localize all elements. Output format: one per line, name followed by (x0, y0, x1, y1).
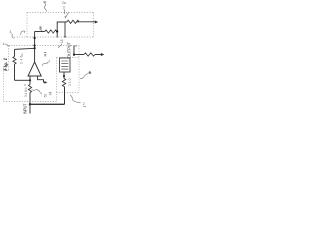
label 1 mark (43, 1, 46, 3)
svg-text:52: 52 (44, 94, 48, 98)
wire: feedback left vertical upper (14, 50, 16, 57)
wire: feedback bottom horizontal to inverting input (15, 79, 31, 81)
dashed boundary: top block right edge (93, 13, 95, 37)
dashed boundary: top block top edge (27, 12, 94, 14)
component X1 box (resonator) (60, 58, 71, 72)
wire: R5 up to component box (63, 72, 65, 79)
label 3 leader squiggle (11, 34, 14, 39)
junction node on bus at lower dashed crossing (34, 44, 36, 46)
wire: output horizontal to R6 (74, 54, 84, 56)
label 38 leader squiggle (top resistor) (40, 27, 42, 32)
label marks above op-amp (44, 53, 46, 56)
wire: node up and right to R2 (57, 22, 67, 32)
label 18 leader squiggle (59, 44, 62, 48)
wire: R1 to node at x57 (56, 31, 57, 33)
arrow: output right arrow (101, 53, 104, 56)
junction node: output tee (73, 53, 75, 55)
svg-text:2: 2 (83, 102, 85, 106)
svg-text:34: 34 (48, 92, 52, 96)
label 8 dot (89, 71, 92, 74)
dashed boundary: left edge jog (4, 70, 9, 72)
svg-text:INPUT: INPUT (23, 103, 28, 114)
dashed boundary: main block left edge upper (8, 46, 10, 71)
dashed boundary: main block top edge (9, 45, 80, 47)
junction node: inverting input (29, 79, 31, 81)
label 2 leader squiggle (bottom right) (70, 95, 81, 103)
label 4 leader squiggle (5, 44, 10, 46)
svg-text:3.: 3. (9, 30, 12, 34)
resistor R5 (mid-right vertical) (62, 79, 65, 87)
wire: bottom horizontal bus (30, 103, 65, 105)
wire: R6 to output arrow (95, 54, 102, 56)
dashed boundary: main block bottom edge (4, 101, 57, 103)
junction node on bus at upper dashed crossing (34, 37, 36, 39)
resistor R6 (output horizontal) (84, 53, 95, 56)
dashed boundary: top block left edge (26, 13, 28, 38)
arrow: reference lead small right arrow (44, 81, 45, 83)
label 2 underline mark (83, 106, 86, 108)
wire: feedback left vertical lower (14, 64, 16, 80)
wire: input vertical lower (29, 93, 31, 114)
wire: output vertical from dashed top edge (73, 46, 75, 57)
svg-text:346: 346 (20, 55, 24, 64)
wire: right vertical from bottom bus up to R5 (64, 87, 66, 105)
label 9 leader squiggle (bottom left) (32, 89, 42, 94)
dashed boundary: top block bottom edge (14, 36, 94, 38)
label 1 leader squiggle (top) (44, 3, 46, 12)
svg-text:38: 38 (38, 26, 42, 30)
dashed boundary: main block left edge lower (3, 71, 5, 102)
arrow: top right output (95, 21, 98, 24)
svg-text:4: 4 (3, 42, 5, 46)
wire: node down to dashed boundary (56, 32, 58, 38)
svg-text:346b: 346b (24, 87, 28, 97)
dashed boundary: inner block right edge (78, 46, 80, 93)
dashed boundary: inner block top edge (57, 57, 80, 59)
svg-text:o: o (75, 44, 77, 48)
resistor R1 (top-left horizontal) (45, 30, 57, 33)
junction node: input tee (29, 103, 31, 105)
wire: input vertical upper (29, 80, 31, 84)
junction node at R1/R2 (56, 30, 58, 32)
label curve near top block (21, 31, 25, 35)
wire: main vertical bus from R1 to op-amp output apex (34, 32, 36, 63)
wire: R2 to output arrow (77, 21, 96, 23)
label 2a leader squiggle (64, 9, 65, 14)
wire: top-left horizontal to R1 (35, 31, 45, 33)
dashed boundary: inner block left edge (56, 58, 58, 102)
resistor R3 (feedback vertical) (13, 57, 16, 65)
svg-text:3: 3 (63, 6, 65, 10)
wire: inverting input stub (29, 76, 31, 80)
svg-text:18: 18 (60, 39, 64, 43)
dashed boundary: inner block bottom edge (57, 92, 80, 94)
svg-text:310: 310 (68, 78, 72, 86)
wire: non-inverting input stub and reference lead (38, 76, 44, 82)
component X1 internal plates (61, 61, 68, 69)
svg-text:o: o (24, 83, 26, 87)
svg-text:7: 7 (48, 59, 50, 63)
label 7 leader squiggle (op-amp) (42, 62, 48, 66)
resistor R4 (input vertical) (28, 85, 31, 93)
junction node: above R5 (63, 75, 65, 77)
svg-text:OUTPUT: OUTPUT (67, 42, 72, 58)
svg-text:Fig. 1: Fig. 1 (3, 58, 9, 71)
junction node: feedback tee (34, 47, 36, 49)
wire: feedback top horizontal (15, 48, 35, 49)
svg-text:2a: 2a (62, 1, 66, 5)
label 8 leader squiggle (right) (80, 74, 88, 79)
op-amp U1 triangle (28, 62, 41, 76)
wire: port drop at x65 to dashed boundary (64, 22, 66, 37)
resistor R2 (top horizontal) (67, 20, 79, 23)
